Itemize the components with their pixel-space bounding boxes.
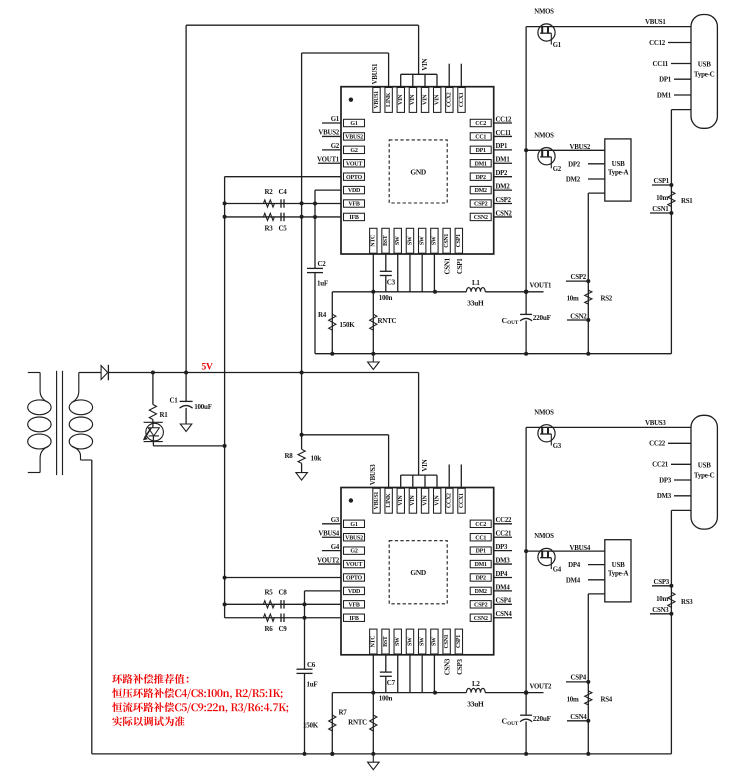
svg-text:C1: C1 [169,396,178,404]
svg-text:VOUT: VOUT [346,161,362,167]
svg-text:DP2: DP2 [568,161,581,168]
svg-text:100n: 100n [379,695,393,703]
svg-text:33uH: 33uH [467,299,484,308]
svg-text:GND: GND [410,568,426,577]
svg-text:R1: R1 [160,411,169,419]
svg-text:SW: SW [395,637,401,646]
svg-text:CC11: CC11 [653,61,669,68]
svg-text:CSP3: CSP3 [654,579,670,586]
svg-text:CSN2: CSN2 [474,616,488,622]
svg-text:VBUS2: VBUS2 [318,130,339,137]
svg-text:R7: R7 [339,709,348,717]
svg-text:VBUS1: VBUS1 [371,63,379,84]
svg-text:DM1: DM1 [496,157,511,164]
svg-text:VBUS1: VBUS1 [374,492,380,510]
svg-text:LINK: LINK [386,92,392,107]
svg-text:CSP1: CSP1 [456,258,464,274]
svg-text:VBUS3: VBUS3 [369,464,377,485]
svg-text:VFB: VFB [348,602,359,608]
svg-text:DP1: DP1 [476,549,486,555]
svg-text:G4: G4 [553,567,562,574]
svg-text:DM2: DM2 [475,589,487,595]
svg-text:VBUS3: VBUS3 [645,420,666,427]
svg-text:IFB: IFB [349,616,359,622]
svg-text:R6: R6 [265,625,274,633]
svg-text:Type-A: Type-A [608,169,629,177]
svg-text:L1: L1 [472,279,480,287]
svg-text:DM1: DM1 [475,161,487,167]
svg-text:VBUS1: VBUS1 [374,91,380,109]
svg-text:IFB: IFB [349,215,359,221]
svg-text:C6: C6 [307,661,316,669]
svg-text:GND: GND [410,167,426,176]
svg-text:CC21: CC21 [652,462,669,469]
svg-text:CC12: CC12 [649,40,666,47]
svg-text:CC22: CC22 [496,517,512,524]
svg-text:CSP2: CSP2 [474,602,488,608]
svg-text:CSN3: CSN3 [652,607,669,614]
svg-text:Type-C: Type-C [694,71,715,79]
svg-text:1uF: 1uF [307,680,318,688]
svg-text:R3: R3 [265,224,274,232]
svg-text:SW: SW [419,236,425,245]
svg-text:220uF: 220uF [533,715,552,723]
svg-text:SW: SW [419,637,425,646]
svg-text:10m: 10m [567,696,579,703]
svg-text:G1: G1 [350,522,357,528]
svg-text:VBUS2: VBUS2 [345,535,363,541]
svg-text:CSP4: CSP4 [571,675,587,682]
svg-text:VIN: VIN [410,495,416,506]
svg-text:Type-A: Type-A [608,570,629,578]
svg-text:USB: USB [612,160,625,168]
svg-text:SW: SW [407,236,413,245]
svg-text:CSN1: CSN1 [652,206,669,213]
svg-text:DP1: DP1 [659,77,672,84]
svg-text:CSP2: CSP2 [496,197,512,204]
svg-text:CSN1: CSN1 [444,634,450,648]
svg-text:C5: C5 [279,224,288,232]
svg-text:LINK: LINK [386,493,392,508]
svg-text:NMOS: NMOS [534,9,554,16]
svg-text:CC21: CC21 [496,531,512,538]
svg-text:DP3: DP3 [496,544,509,551]
svg-text:VIN: VIN [435,495,441,506]
svg-text:CC2: CC2 [475,121,486,127]
svg-text:VIN: VIN [398,94,404,105]
svg-text:VBUS4: VBUS4 [318,530,339,537]
svg-text:DP4: DP4 [496,571,509,578]
svg-text:DM3: DM3 [496,557,511,564]
svg-text:10m: 10m [656,596,668,603]
svg-text:CSP1: CSP1 [456,234,462,247]
svg-text:VOUT: VOUT [346,562,362,568]
svg-text:SW: SW [432,637,438,646]
svg-text:DM3: DM3 [657,493,672,500]
svg-text:10m: 10m [656,195,668,202]
svg-text:CSP2: CSP2 [474,202,488,208]
svg-text:CSN1: CSN1 [444,234,450,248]
svg-text:10m: 10m [567,296,579,303]
svg-text:NTC: NTC [371,235,377,247]
svg-text:G3: G3 [553,443,562,450]
svg-text:CSN1: CSN1 [444,257,452,274]
svg-text:VIN: VIN [421,459,429,471]
svg-text:VDD: VDD [348,589,361,595]
svg-text:CC22: CC22 [649,441,666,448]
svg-text:RNTC: RNTC [348,719,367,727]
svg-text:CSN2: CSN2 [496,210,513,217]
svg-text:R4: R4 [318,311,327,319]
svg-text:VIN: VIN [398,495,404,506]
svg-text:C9: C9 [279,625,288,633]
svg-text:CCX1: CCX1 [459,493,465,508]
svg-text:DM4: DM4 [566,577,581,584]
svg-text:DM2: DM2 [475,188,487,194]
svg-text:C2: C2 [318,260,327,268]
svg-text:BST: BST [383,636,389,647]
svg-text:R5: R5 [265,589,274,597]
svg-text:G3: G3 [331,517,340,524]
svg-text:C7: C7 [387,679,396,687]
svg-text:RS1: RS1 [681,198,693,205]
svg-text:C8: C8 [279,589,288,597]
svg-text:VBUS4: VBUS4 [570,545,591,552]
svg-text:DP2: DP2 [496,170,509,177]
svg-text:CSP3: CSP3 [456,659,464,675]
svg-text:USB: USB [612,561,625,569]
svg-text:R8: R8 [284,452,293,460]
svg-text:CCX1: CCX1 [459,92,465,107]
svg-text:CSN4: CSN4 [570,714,587,721]
svg-text:100n: 100n [379,294,393,302]
svg-text:VOUT1: VOUT1 [317,156,340,163]
svg-text:VIN: VIN [422,495,428,506]
svg-text:10k: 10k [311,454,322,462]
svg-text:NMOS: NMOS [534,409,554,416]
svg-text:150K: 150K [303,722,319,730]
svg-text:CC1: CC1 [475,535,486,541]
svg-text:220uF: 220uF [533,314,552,322]
svg-text:150K: 150K [340,321,356,329]
svg-text:VDD: VDD [348,188,361,194]
svg-text:DM1: DM1 [657,92,672,99]
svg-text:OPTO: OPTO [346,576,362,582]
svg-text:CCX2: CCX2 [447,92,453,107]
svg-text:SW: SW [395,236,401,245]
svg-text:G4: G4 [331,544,340,551]
svg-text:RS3: RS3 [681,599,693,606]
svg-text:SW: SW [432,236,438,245]
svg-text:DP4: DP4 [568,562,581,569]
svg-text:RNTC: RNTC [378,317,397,325]
svg-text:CC2: CC2 [475,522,486,528]
svg-text:DP2: DP2 [476,175,486,181]
svg-text:RS4: RS4 [601,696,613,703]
svg-text:100uF: 100uF [194,403,211,411]
svg-text:1uF: 1uF [317,280,328,288]
svg-text:DP1: DP1 [496,143,509,150]
svg-text:USB: USB [698,461,711,469]
svg-text:5V: 5V [202,362,214,372]
svg-text:DM2: DM2 [496,184,511,191]
svg-text:RS2: RS2 [601,296,613,303]
svg-text:CSN3: CSN3 [444,658,452,675]
svg-text:VOUT1: VOUT1 [530,283,553,290]
svg-text:CC1: CC1 [475,135,486,141]
svg-text:R2: R2 [265,188,274,196]
svg-text:VIN: VIN [410,94,416,105]
svg-text:USB: USB [698,61,711,69]
svg-text:G1: G1 [553,42,562,49]
svg-text:CSN2: CSN2 [474,215,488,221]
svg-text:CSN4: CSN4 [496,611,513,618]
svg-text:G2: G2 [553,166,562,173]
svg-text:Type-C: Type-C [694,471,715,479]
svg-text:VBUS2: VBUS2 [570,144,591,151]
svg-text:VBUS1: VBUS1 [645,19,666,26]
svg-text:CSP4: CSP4 [496,598,512,605]
svg-text:BST: BST [383,235,389,246]
svg-text:VIN: VIN [421,59,429,71]
svg-text:C3: C3 [387,278,396,286]
svg-text:NTC: NTC [371,636,377,648]
svg-text:DP1: DP1 [476,148,486,154]
svg-text:G2: G2 [350,148,357,154]
svg-text:NMOS: NMOS [534,533,554,540]
svg-text:SW: SW [407,637,413,646]
svg-text:VIN: VIN [422,94,428,105]
svg-text:G1: G1 [350,121,357,127]
svg-text:NMOS: NMOS [534,132,554,139]
svg-text:CSP1: CSP1 [654,178,670,185]
svg-text:G2: G2 [350,549,357,555]
svg-text:DP2: DP2 [476,576,486,582]
svg-text:OPTO: OPTO [346,175,362,181]
svg-text:VOUT2: VOUT2 [317,557,340,564]
svg-text:CC12: CC12 [496,116,512,123]
svg-text:VFB: VFB [348,202,359,208]
svg-text:33uH: 33uH [467,699,484,708]
svg-text:L2: L2 [472,680,480,688]
svg-text:DM2: DM2 [566,177,581,184]
svg-text:CCX2: CCX2 [447,493,453,508]
svg-text:G1: G1 [331,116,340,123]
svg-text:DM4: DM4 [496,584,511,591]
svg-text:VIN: VIN [435,94,441,105]
svg-text:DM1: DM1 [475,562,487,568]
svg-text:CC11: CC11 [496,130,512,137]
svg-text:CSP2: CSP2 [571,274,587,281]
svg-text:CSN2: CSN2 [570,313,587,320]
svg-text:C4: C4 [279,188,288,196]
svg-text:DP3: DP3 [659,477,672,484]
svg-text:VBUS2: VBUS2 [345,135,363,141]
svg-text:VOUT2: VOUT2 [530,683,553,690]
svg-text:CSP1: CSP1 [456,635,462,648]
svg-text:G2: G2 [331,143,340,150]
